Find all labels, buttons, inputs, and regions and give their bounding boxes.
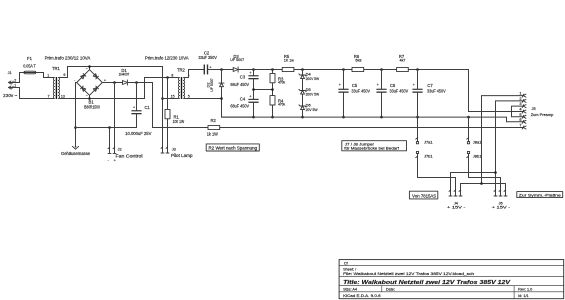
resistor R2: [208, 125, 220, 129]
wire J5 pin2 feed: [496, 100, 524, 102]
diode D1: [123, 80, 128, 85]
resistor R1: [165, 109, 170, 118]
svg-text:Id: 1/1: Id: 1/1: [518, 294, 529, 298]
svg-text:470k: 470k: [278, 102, 285, 107]
wire J5 pin3-pin5 tie: [512, 106, 524, 117]
svg-text:KiCad E.D.A. 9.0.6: KiCad E.D.A. 9.0.6: [343, 294, 381, 298]
wire D1 to +17V corner: [128, 83, 208, 128]
wire R1 bottom lead: [167, 119, 169, 149]
capacitor C1: [131, 110, 141, 114]
wire capacitor midpoint link: [254, 89, 273, 91]
junction R3 top: [271, 68, 274, 71]
svg-text:+ 15V -: + 15V -: [492, 205, 511, 210]
svg-text:+: +: [210, 65, 212, 69]
wire C6 bottom lead: [381, 93, 383, 117]
jumper J7a1: [416, 117, 419, 144]
connector J5 pin 5: [522, 115, 526, 118]
wire J7b1 to J4 middle pin: [418, 178, 456, 197]
svg-text:C3: C3: [240, 74, 246, 79]
wire TR2 pin5 to D2 node: [184, 98, 222, 100]
wire D6 to 0V rail: [302, 110, 304, 118]
wire -15V rail J4 pin3 to J6 pin3: [461, 184, 506, 197]
svg-text:J7b1: J7b1: [424, 155, 433, 159]
svg-text:~: ~: [86, 94, 88, 98]
junction pin1 / -15V rail: [480, 182, 483, 185]
zener diode D5: [299, 89, 306, 94]
svg-text:4k7: 4k7: [400, 57, 406, 62]
zener diode D4: [299, 74, 306, 79]
junction bridge bottom / AC wire: [88, 97, 91, 100]
svg-text:Zur Symm.-Platine: Zur Symm.-Platine: [519, 193, 562, 198]
wire J5 pin2 drop to J6 pin1: [495, 101, 497, 196]
svg-text:J8b1: J8b1: [473, 155, 482, 159]
svg-text:UF 5007: UF 5007: [210, 78, 214, 92]
svg-text:10.000uF 25V: 10.000uF 25V: [125, 131, 152, 136]
jumper J7b1: [416, 151, 419, 177]
wire R7 to HV corner and J5 pin4: [408, 70, 523, 112]
svg-text:13: 13: [61, 94, 65, 98]
wire 0V rail to J5 pin6: [222, 117, 524, 122]
junction J2 pinA: [108, 126, 111, 129]
svg-text:0.05A T: 0.05A T: [23, 64, 36, 69]
note box Zur Symm.-Platine: [517, 192, 563, 198]
svg-text:1k 1W: 1k 1W: [207, 132, 218, 137]
svg-text:68uF 450V: 68uF 450V: [230, 103, 249, 108]
svg-text:470k: 470k: [278, 80, 285, 85]
label D2 (rotated): [206, 83, 211, 88]
wire C1 negative lead and C1- rail: [76, 114, 137, 127]
svg-text:Von 7815AS: Von 7815AS: [412, 193, 436, 198]
wire R5 to R6: [294, 69, 352, 71]
svg-text:+: +: [133, 105, 135, 109]
wire pin9 net down to J3 pin A: [162, 67, 164, 149]
junction pin2 / +15V rail: [494, 171, 497, 174]
capacitor C7: [412, 89, 422, 93]
svg-text:für Massebrücke bei Bedarf: für Massebrücke bei Bedarf: [344, 146, 400, 151]
svg-text:7: 7: [48, 94, 50, 98]
svg-text:8: 8: [171, 73, 173, 77]
svg-text:J2: J2: [118, 147, 122, 152]
resistor R6: [352, 67, 364, 71]
junction bridge top / AC wire: [88, 65, 91, 68]
svg-text:Sheet: /: Sheet: /: [343, 267, 357, 271]
svg-text:File: Walkabout Netzteil zwei: File: Walkabout Netzteil zwei 12V Trafos…: [343, 272, 474, 276]
wire bridge plus to D1: [102, 82, 122, 84]
resistor R7: [397, 67, 409, 71]
connector J6 pin 1 foot: [494, 190, 497, 196]
wire C5 bottom lead: [343, 93, 345, 117]
wire C5 top lead: [343, 70, 345, 89]
svg-text:1: 1: [519, 91, 521, 96]
junction C5 bottom: [342, 116, 345, 119]
svg-text:UF 5007: UF 5007: [230, 57, 244, 62]
svg-text:200V 5W: 200V 5W: [306, 76, 320, 81]
junction C6 bottom: [380, 116, 383, 119]
wire D2 top lead: [221, 70, 223, 84]
svg-text:F1: F1: [27, 56, 33, 61]
svg-text:J7a1: J7a1: [424, 140, 433, 144]
wire J5 pin1 drop to -15V rail: [481, 96, 483, 184]
svg-text:200V 5W: 200V 5W: [306, 91, 320, 96]
svg-text:~: ~: [86, 67, 88, 71]
svg-text:Fan Control: Fan Control: [116, 153, 143, 158]
connector J5 pin 1: [522, 94, 526, 97]
connector J5 pin 6: [522, 120, 526, 123]
fuse F1: [24, 71, 36, 74]
wire R3 bottom to R4 top: [272, 83, 274, 96]
svg-text:Prim.trafo 12/230 10VA: Prim.trafo 12/230 10VA: [145, 56, 189, 61]
wire J8b1 to J6 middle pin: [469, 178, 501, 197]
bridge diode bottom-right: [93, 86, 98, 91]
svg-text:2: 2: [14, 78, 16, 82]
connector J1: [9, 81, 14, 89]
wire J1 pin1 down to 230V return: [9, 88, 54, 99]
wire J5 pin1 feed: [482, 95, 524, 97]
svg-text:J5: J5: [532, 106, 536, 111]
junction C7 top: [416, 68, 419, 71]
svg-text:TR1: TR1: [52, 66, 61, 71]
capacitor C3: [248, 75, 258, 79]
wire TR2 pin15: [163, 98, 179, 100]
svg-text:C1: C1: [145, 105, 151, 110]
connector J6 pin 2 foot: [499, 190, 502, 196]
junction zener stack top: [301, 68, 304, 71]
connector J6 pin 3 foot: [504, 190, 507, 196]
wire C6 top lead: [381, 70, 383, 89]
junction C3 top: [252, 68, 255, 71]
title block frame: [339, 260, 564, 299]
svg-text:6: 6: [519, 117, 521, 122]
diode D2: [219, 83, 224, 87]
wire TR1 pin9 riser to AC top wire: [59, 67, 163, 78]
svg-text:+: +: [377, 83, 379, 87]
svg-text:Rev: 1.0: Rev: 1.0: [518, 288, 532, 292]
junction R4 bottom: [271, 116, 274, 119]
diode D3: [233, 67, 238, 72]
label UF 5007 (rotated, D2): [210, 78, 214, 92]
connector J5 pin 3: [522, 105, 526, 108]
svg-text:+: +: [339, 83, 341, 87]
svg-text:+ 15V -: + 15V -: [447, 205, 466, 210]
junction C4 bottom: [252, 116, 255, 119]
connector J3 pin B foot: [166, 147, 169, 153]
note box R2 Wert nach Spannung: [206, 144, 259, 151]
svg-text:+: +: [104, 78, 106, 82]
wire +15V rail J4 pin1: [451, 173, 496, 197]
svg-text:68uF 450V: 68uF 450V: [230, 82, 249, 87]
junction C1 plus riser: [135, 81, 138, 84]
wire TR2 pin1 riser to C2: [184, 70, 204, 78]
svg-text:33uF 350V: 33uF 350V: [198, 55, 217, 60]
capacitor C2: [204, 65, 209, 75]
transformer TR1: [53, 77, 59, 99]
junction C1- rail / chassis drop: [74, 126, 77, 129]
svg-text:33uF 450V: 33uF 450V: [427, 88, 446, 93]
wire HV rail D3 to R5: [239, 69, 282, 71]
resistor R4: [270, 96, 275, 105]
svg-text:Date:: Date:: [386, 288, 395, 292]
bridge diode top-left: [81, 74, 86, 79]
transformer TR2: [178, 77, 184, 99]
wire C7 top lead: [417, 70, 419, 89]
note box J7/J8 jumper: [342, 141, 407, 151]
connector J5 pin 2: [522, 99, 526, 102]
svg-text:9: 9: [63, 73, 65, 77]
capacitor C4: [248, 99, 258, 103]
connector J2 pin A: [108, 128, 111, 154]
resistor R5: [282, 67, 294, 71]
wire D4 to D5: [302, 79, 304, 91]
zener diode D6: [299, 105, 306, 110]
connector J3 pin A foot: [161, 147, 164, 153]
junction TR2 pin15 wire: [161, 97, 164, 100]
wire R6 to R7: [364, 69, 397, 71]
svg-text:B80R1500: B80R1500: [84, 105, 100, 110]
junction mid link right: [271, 88, 274, 91]
junction zener stack bottom: [301, 116, 304, 119]
bridge diode bottom-left: [81, 86, 86, 91]
wire C3 top lead: [253, 70, 255, 76]
svg-text:33uF 450V: 33uF 450V: [351, 88, 370, 93]
bridge rectifier B1: [77, 70, 103, 96]
note box Von 7815AS: [409, 191, 437, 199]
wire C3 bottom to C4 top: [253, 79, 255, 99]
wire D2 to 0V rail: [222, 87, 254, 117]
svg-text:1K 1w: 1K 1w: [284, 57, 294, 62]
svg-text:C4: C4: [240, 97, 246, 102]
junction R1 top: [166, 76, 169, 79]
connector J5 pin 4: [522, 110, 526, 113]
wire bridge minus down to C1- rail and chassis: [76, 83, 77, 147]
wire C7 bottom lead / J7a1 drop: [417, 93, 419, 142]
wire AC return up to TR2 pin8: [145, 78, 179, 99]
svg-text:J8a1: J8a1: [473, 140, 482, 144]
wire TR1 pin13 bottom AC wire: [59, 98, 145, 100]
wire C4 bottom lead: [253, 103, 255, 117]
svg-text:Title: Walkabout Netzteil zwei: Title: Walkabout Netzteil zwei 12V Trafo…: [343, 280, 512, 286]
svg-text:100 1W: 100 1W: [173, 119, 185, 124]
svg-text:Prim.trafo 230/12 10VA: Prim.trafo 230/12 10VA: [45, 56, 91, 61]
junction C5 top: [342, 68, 345, 71]
svg-text:J3: J3: [172, 147, 176, 152]
svg-text:33uF 450V: 33uF 450V: [390, 88, 409, 93]
svg-text:Zum Preamp: Zum Preamp: [531, 112, 554, 117]
wire J3 pin A stub: [162, 149, 164, 153]
svg-text:R2: R2: [211, 118, 217, 123]
junction J2 pinB riser: [113, 81, 116, 84]
ground Gehaeusemasse: [72, 146, 78, 149]
svg-text:Gehäusemasse: Gehäusemasse: [61, 151, 91, 156]
svg-text:+: +: [249, 71, 251, 75]
svg-text:7: 7: [519, 123, 521, 128]
connector J4 pin 1 foot: [449, 190, 452, 196]
wire bridge top stub: [89, 67, 91, 70]
svg-text:Pilot Lamp: Pilot Lamp: [171, 153, 193, 158]
svg-text:+: +: [249, 95, 251, 99]
svg-text:230v ~: 230v ~: [3, 93, 18, 98]
junction C6 top: [380, 68, 383, 71]
svg-text:1: 1: [47, 74, 49, 78]
svg-text:J1: J1: [8, 70, 12, 75]
junction node A: [220, 68, 223, 71]
connector J2 pin B: [113, 83, 116, 154]
wire R2 to J5 pin7: [220, 127, 524, 129]
svg-text:+: +: [413, 83, 415, 87]
svg-text:R2 Wert nach Spannung: R2 Wert nach Spannung: [209, 146, 258, 151]
wire bridge bottom stub: [89, 95, 91, 98]
wire J1 pin2 to fuse F1: [9, 73, 25, 83]
resistor R3: [270, 73, 275, 82]
svg-text:TR2: TR2: [177, 68, 186, 73]
capacitor C6: [376, 89, 386, 93]
junction mid link left: [252, 88, 255, 91]
svg-text:Size: A4: Size: A4: [343, 288, 357, 292]
junction J8a1 drop: [467, 116, 470, 119]
svg-text:3: 3: [519, 101, 521, 106]
wire R3 top lead: [272, 70, 274, 74]
bridge diode top-right: [93, 74, 98, 79]
wire fuse to TR1 pin1: [36, 73, 54, 78]
jumper J8a1: [467, 117, 470, 144]
connector J4 pin 2 foot: [454, 190, 457, 196]
wire D5 to D6: [302, 94, 304, 106]
connector J4 pin 3 foot: [459, 190, 462, 196]
wire zener stack top lead: [302, 70, 304, 76]
capacitor C5: [338, 89, 348, 93]
wire R1 top lead: [167, 78, 169, 110]
junction C7 bottom on 0V rail: [416, 116, 419, 119]
wire C2 to node A: [208, 69, 233, 71]
wire J3 pin B stub: [167, 149, 169, 153]
svg-text:1N4007: 1N4007: [119, 71, 130, 76]
svg-text:6k8: 6k8: [355, 57, 361, 62]
connector J5 pin 7: [522, 126, 526, 129]
wire R4 bottom lead: [272, 105, 274, 117]
jumper J8b1: [467, 151, 470, 177]
svg-text:20V 5W: 20V 5W: [306, 107, 318, 112]
junction TR2 pin5 at D2: [220, 97, 223, 100]
svg-text:1: 1: [14, 83, 16, 87]
wire C1 positive lead: [136, 83, 138, 111]
svg-text:15: 15: [171, 95, 175, 99]
